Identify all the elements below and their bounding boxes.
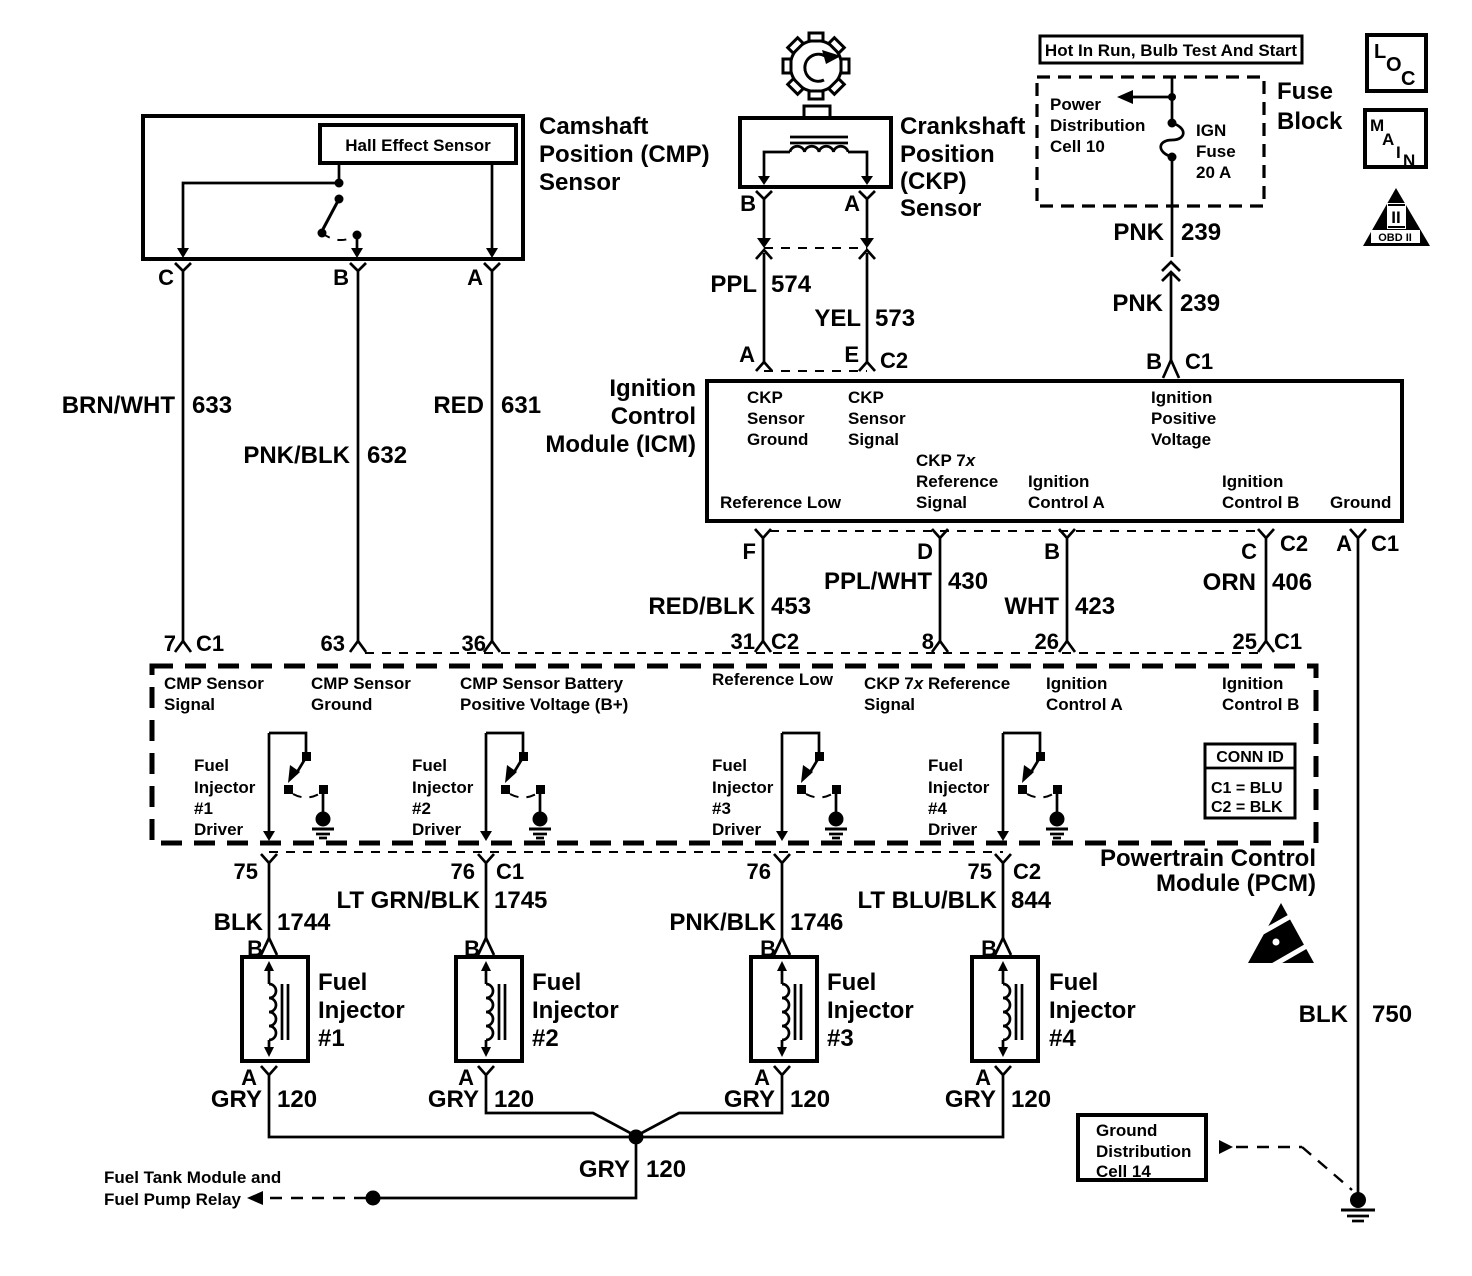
svg-text:Control A: Control A [1046, 695, 1123, 714]
terminal A of injector 1 [241, 1065, 277, 1090]
svg-text:Position (CMP): Position (CMP) [539, 141, 710, 168]
svg-text:LT BLU/BLK: LT BLU/BLK [857, 887, 997, 914]
svg-text:Reference Low: Reference Low [712, 670, 834, 689]
wire LT BLU/BLK 844 [1002, 872, 1005, 938]
svg-text:B: B [1146, 349, 1162, 374]
terminal A of injector 3 [754, 1065, 790, 1090]
svg-text:31: 31 [731, 629, 755, 654]
label Camshaft Position (CMP) Sensor [539, 113, 710, 196]
svg-text:Ground: Ground [311, 695, 372, 714]
terminal C of ICM [1241, 529, 1308, 564]
Hot In Run Bulb Test And Start box [1040, 36, 1302, 63]
terminal C of CMP [158, 263, 191, 290]
wire PNK/BLK 632 from B [350, 287, 366, 652]
wire injector 3 return [636, 1085, 782, 1136]
value label BRN/WHT 633 [62, 392, 232, 419]
svg-text:Injector: Injector [318, 997, 405, 1024]
svg-text:C2: C2 [1013, 859, 1041, 884]
label Fuel Injector #3 [827, 969, 914, 1052]
svg-text:Sensor: Sensor [848, 409, 906, 428]
ICM pin label Ignition Positive Voltage [1151, 388, 1216, 449]
value label GRY 120 injector 2 [428, 1086, 534, 1113]
inline connector top dashed line [764, 247, 867, 249]
svg-text:Driver: Driver [194, 820, 244, 839]
terminal B of CMP [333, 263, 366, 290]
ground G101 [1341, 1192, 1375, 1221]
svg-text:(CKP): (CKP) [900, 168, 967, 195]
svg-text:A: A [467, 265, 483, 290]
label Ignition Control Module (ICM) [545, 375, 696, 458]
svg-text:A: A [1336, 531, 1352, 556]
svg-text:120: 120 [790, 1086, 830, 1113]
transistor Q4 injector driver switch [1003, 733, 1062, 812]
svg-text:BRN/WHT: BRN/WHT [62, 392, 176, 419]
pin 36 label [462, 631, 486, 656]
svg-text:GRY: GRY [211, 1086, 262, 1113]
svg-text:B: B [740, 191, 756, 216]
terminal A of ICM [1336, 529, 1399, 556]
svg-text:63: 63 [321, 631, 345, 656]
svg-text:1746: 1746 [790, 909, 843, 936]
svg-text:BLK: BLK [1299, 1001, 1349, 1028]
switch blade [322, 199, 339, 231]
pin B of injector 3 [760, 936, 790, 961]
svg-text:Ignition: Ignition [1222, 472, 1283, 491]
svg-text:C1: C1 [1371, 531, 1399, 556]
fuel injector 4 box [972, 957, 1038, 1061]
svg-text:239: 239 [1181, 219, 1221, 246]
MAIN symbol box [1365, 110, 1426, 170]
svg-text:Fuel: Fuel [318, 969, 367, 996]
value label BLK 750 [1299, 1001, 1412, 1028]
svg-text:76: 76 [451, 859, 475, 884]
driver 2 coil to ground [529, 812, 551, 839]
wire hall-sensor output stem [338, 163, 341, 183]
value label LT BLU/BLK 844 [857, 887, 1051, 914]
value label GRY 120 main [579, 1156, 686, 1183]
svg-text:Ignition: Ignition [1222, 674, 1283, 693]
svg-text:OBD II: OBD II [1378, 232, 1412, 244]
connector id C2 [880, 348, 908, 373]
svg-text:632: 632 [367, 442, 407, 469]
ICM pin label Ignition Control B [1222, 472, 1299, 512]
svg-text:Ignition: Ignition [1028, 472, 1089, 491]
svg-text:Reference Low: Reference Low [720, 493, 842, 512]
svg-text:Driver: Driver [928, 820, 978, 839]
svg-text:IGN: IGN [1196, 121, 1226, 140]
terminal D of ICM [917, 529, 948, 564]
fuse IGN 20 A [1161, 119, 1184, 162]
svg-text:L: L [1374, 41, 1386, 63]
terminal 75 of PCM [968, 854, 1042, 884]
svg-text:Injector: Injector [928, 778, 990, 797]
svg-text:#3: #3 [827, 1025, 854, 1052]
CKP pickup coil [790, 146, 848, 152]
switch contact pivot [335, 195, 344, 204]
PCM pin label CMP Sensor Signal [164, 674, 264, 714]
switch closed contact node [353, 231, 362, 240]
switch blade end node [318, 229, 327, 238]
svg-text:WHT: WHT [1004, 593, 1059, 620]
svg-text:Injector: Injector [712, 778, 774, 797]
svg-text:Fuel: Fuel [1049, 969, 1098, 996]
wire coil to terminal B of CKP [758, 152, 790, 185]
PCM pin label Ignition Control B [1222, 674, 1299, 714]
svg-text:76: 76 [747, 859, 771, 884]
label Fuel Injector #2 [532, 969, 619, 1052]
splice dot to fuel pump relay [366, 1191, 381, 1206]
svg-text:Ignition: Ignition [1046, 674, 1107, 693]
label Fuel Injector #3 Driver [712, 756, 774, 839]
svg-text:PPL: PPL [710, 271, 757, 298]
svg-text:633: 633 [192, 392, 232, 419]
wire injector 1 return [269, 1085, 634, 1137]
svg-text:Fuel Pump Relay: Fuel Pump Relay [104, 1190, 242, 1209]
ICM box [707, 381, 1402, 521]
svg-text:C: C [1241, 539, 1257, 564]
wire PNK 239 upper [1171, 157, 1174, 257]
svg-text:C2: C2 [880, 348, 908, 373]
svg-text:Fuel: Fuel [827, 969, 876, 996]
wire LT GRN/BLK 1745 [485, 872, 488, 938]
value label GRY 120 injector 4 [945, 1086, 1051, 1113]
terminal B of CKP [740, 191, 772, 216]
svg-text:N: N [1403, 151, 1415, 170]
CKP pickup pole lines [790, 137, 848, 143]
label Fuel Injector #4 Driver [928, 756, 990, 839]
PCM dashed box [152, 666, 1316, 843]
wire BRN/WHT 633 from C [175, 287, 191, 652]
svg-text:C1: C1 [1185, 349, 1213, 374]
svg-text:CKP: CKP [848, 388, 884, 407]
svg-text:A: A [844, 191, 860, 216]
wire YEL 573 lower segment [866, 253, 869, 362]
arrow to ground distribution [1219, 1140, 1352, 1190]
OBD II symbol [1363, 188, 1430, 246]
svg-text:LT GRN/BLK: LT GRN/BLK [336, 887, 480, 914]
svg-text:E: E [844, 342, 859, 367]
svg-text:Powertrain Control: Powertrain Control [1100, 845, 1316, 872]
transistor Q2 injector driver switch [486, 733, 545, 812]
svg-text:C1 = BLU: C1 = BLU [1211, 780, 1283, 797]
svg-text:Camshaft: Camshaft [539, 113, 648, 140]
svg-text:574: 574 [771, 271, 812, 298]
svg-text:Ignition: Ignition [1151, 388, 1212, 407]
terminal 76 of PCM [451, 854, 525, 884]
svg-text:Block: Block [1277, 108, 1343, 135]
svg-text:Injector: Injector [532, 997, 619, 1024]
svg-text:PNK: PNK [1113, 219, 1164, 246]
Ground Distribution Cell 14 box [1078, 1115, 1206, 1181]
terminal A of injector 2 [458, 1065, 494, 1090]
CKP reluctor gear [791, 41, 842, 92]
value label GRY 120 injector 1 [211, 1086, 317, 1113]
svg-text:430: 430 [948, 568, 988, 595]
PCM pin label Ignition Control A [1046, 674, 1123, 714]
ICM pin label CKP 7x Reference Signal [916, 451, 998, 512]
svg-text:Position: Position [900, 141, 995, 168]
Fuse Block dashed box [1037, 77, 1264, 206]
wire YEL 573 upper segment [860, 215, 874, 248]
value label BLK 1744 [214, 909, 331, 936]
driver 4 coil to ground [1046, 812, 1068, 839]
CMP sensor outer box [143, 116, 523, 259]
wire driver 3 output [776, 733, 788, 841]
svg-text:423: 423 [1075, 593, 1115, 620]
splice junction GRY 120 [629, 1130, 644, 1145]
pin B of injector 2 [464, 936, 494, 961]
connector socket A side [859, 250, 875, 259]
svg-text:CMP Sensor: CMP Sensor [164, 674, 264, 693]
wire to power distribution arrow [1117, 90, 1176, 104]
ESD sensitive symbol [1247, 903, 1317, 970]
wire PPL 574 lower segment [763, 253, 766, 362]
svg-text:RED: RED [433, 392, 484, 419]
wire WHT 423 [1059, 546, 1075, 652]
wire BLK 1744 [268, 872, 271, 938]
svg-text:C: C [1401, 68, 1415, 90]
svg-text:Positive: Positive [1151, 409, 1216, 428]
svg-text:CMP Sensor Battery: CMP Sensor Battery [460, 674, 624, 693]
value label PNK 239 lower [1112, 290, 1220, 317]
value label PNK/BLK 1746 [669, 909, 843, 936]
svg-text:O: O [1386, 54, 1402, 76]
switch travel dashed arc [322, 233, 357, 240]
arrow to terminal B [351, 237, 363, 258]
terminal B of ICM [1044, 529, 1075, 564]
svg-text:26: 26 [1035, 629, 1059, 654]
svg-text:Sensor: Sensor [900, 195, 981, 222]
value label YEL 573 [814, 305, 915, 332]
pin E into ICM [844, 342, 875, 371]
wire injector 2 return [486, 1085, 636, 1136]
pin 7 C1 label [164, 631, 224, 656]
pin 26 label [1035, 629, 1059, 654]
svg-text:D: D [917, 539, 933, 564]
wire PNK/BLK 1746 [781, 872, 784, 938]
ICM pin label Ground [1330, 493, 1391, 512]
inline connector chevrons on PNK wire [1162, 262, 1180, 281]
svg-text:8: 8 [922, 629, 934, 654]
svg-text:CMP Sensor: CMP Sensor [311, 674, 411, 693]
value label PNK 239 upper [1113, 219, 1221, 246]
svg-text:120: 120 [494, 1086, 534, 1113]
svg-text:C: C [158, 265, 174, 290]
wire injector 4 return [638, 1085, 1003, 1137]
svg-text:C2: C2 [771, 629, 799, 654]
wire fuse feed [1171, 77, 1174, 121]
PCM pin label CMP Sensor Ground [311, 674, 411, 714]
wire PPL/WHT 430 [932, 546, 948, 652]
ICM pin label Reference Low [720, 493, 842, 512]
svg-text:1744: 1744 [277, 909, 331, 936]
value label RED/BLK 453 [648, 593, 811, 620]
terminal A of CMP [467, 263, 500, 290]
svg-text:239: 239 [1180, 290, 1220, 317]
label Fuel Injector #4 [1049, 969, 1136, 1052]
svg-text:GRY: GRY [579, 1156, 630, 1183]
wire to terminal C [177, 183, 339, 258]
svg-text:120: 120 [1011, 1086, 1051, 1113]
fuel injector 2 box [456, 957, 522, 1061]
label Fuse Block [1277, 78, 1343, 135]
svg-text:C2: C2 [1280, 531, 1308, 556]
terminal 76 of PCM [747, 854, 790, 884]
wire RED 631 from A [484, 287, 500, 652]
svg-text:C1: C1 [496, 859, 524, 884]
pin 31 C2 label [731, 629, 800, 654]
wire driver 2 output [480, 733, 492, 841]
terminal A of injector 4 [975, 1065, 1011, 1090]
PCM output connector dashed line [269, 851, 1003, 853]
terminal F of ICM [743, 529, 771, 564]
svg-text:Fuel: Fuel [712, 756, 747, 775]
svg-text:I: I [1396, 143, 1401, 162]
PCM pin label Reference Low [712, 670, 834, 689]
svg-text:Distribution: Distribution [1050, 116, 1145, 135]
svg-text:Injector: Injector [1049, 997, 1136, 1024]
svg-text:Driver: Driver [712, 820, 762, 839]
value label PPL/WHT 430 [824, 568, 988, 595]
svg-text:Fuse: Fuse [1277, 78, 1333, 105]
svg-text:Cell 14: Cell 14 [1096, 1162, 1151, 1181]
svg-text:Reference: Reference [916, 472, 998, 491]
svg-text:406: 406 [1272, 569, 1312, 596]
svg-text:#3: #3 [712, 799, 731, 818]
svg-text:ORN: ORN [1203, 569, 1256, 596]
svg-text:RED/BLK: RED/BLK [648, 593, 755, 620]
pin 25 C1 label [1233, 629, 1303, 654]
ICM connector dashed line [770, 530, 1258, 532]
svg-text:PNK: PNK [1112, 290, 1163, 317]
wire PPL 574 upper segment [757, 215, 771, 248]
svg-text:Distribution: Distribution [1096, 1142, 1191, 1161]
svg-text:20 A: 20 A [1196, 163, 1231, 182]
svg-text:75: 75 [968, 859, 992, 884]
svg-text:CKP: CKP [747, 388, 783, 407]
svg-text:631: 631 [501, 392, 541, 419]
svg-text:Hall Effect Sensor: Hall Effect Sensor [345, 136, 491, 155]
svg-text:C2 = BLK: C2 = BLK [1211, 799, 1283, 816]
label IGN Fuse 20 A [1196, 121, 1236, 182]
svg-text:Crankshaft: Crankshaft [900, 113, 1025, 140]
svg-text:PNK/BLK: PNK/BLK [669, 909, 776, 936]
svg-text:Sensor: Sensor [539, 169, 620, 196]
driver 3 coil to ground [825, 812, 847, 839]
svg-text:Hot In Run, Bulb Test And Star: Hot In Run, Bulb Test And Start [1045, 41, 1297, 60]
LOC symbol box [1367, 35, 1426, 91]
svg-text:Injector: Injector [412, 778, 474, 797]
label Power Distribution Cell 10 [1050, 95, 1145, 156]
svg-text:BLK: BLK [214, 909, 264, 936]
wire driver 1 output [263, 733, 275, 841]
CKP sensor tab [804, 106, 830, 118]
svg-text:B: B [1044, 539, 1060, 564]
pin A into ICM [739, 342, 772, 371]
svg-text:Fuel: Fuel [928, 756, 963, 775]
value label GRY 120 injector 3 [724, 1086, 830, 1113]
svg-text:750: 750 [1372, 1001, 1412, 1028]
terminal 75 of PCM [234, 854, 277, 884]
svg-text:F: F [743, 539, 756, 564]
svg-text:25: 25 [1233, 629, 1257, 654]
svg-text:#2: #2 [412, 799, 431, 818]
svg-text:Fuel: Fuel [532, 969, 581, 996]
terminal A of CKP [844, 191, 875, 216]
wire driver 4 output [997, 733, 1009, 841]
svg-text:#4: #4 [1049, 1025, 1076, 1052]
svg-text:Signal: Signal [848, 430, 899, 449]
injector 2 solenoid coil symbol [481, 961, 505, 1057]
svg-text:Sensor: Sensor [747, 409, 805, 428]
value label PPL 574 [710, 271, 811, 298]
pin 8 label [922, 629, 934, 654]
label Crankshaft Position (CKP) Sensor [900, 113, 1025, 222]
label Powertrain Control Module (PCM) [1100, 845, 1316, 897]
PCM connector dashed line top [365, 652, 1258, 654]
svg-text:Module (ICM): Module (ICM) [545, 431, 696, 458]
svg-text:Fuel: Fuel [412, 756, 447, 775]
svg-text:#1: #1 [194, 799, 213, 818]
wire hall sensor to terminal A [486, 163, 498, 258]
Hall Effect Sensor box [320, 125, 516, 163]
svg-text:Injector: Injector [827, 997, 914, 1024]
pin 63 label [321, 631, 345, 656]
svg-text:GRY: GRY [945, 1086, 996, 1113]
value label ORN 406 [1203, 569, 1312, 596]
svg-text:120: 120 [277, 1086, 317, 1113]
wire ORN 406 [1258, 546, 1274, 652]
svg-text:A: A [739, 342, 755, 367]
svg-text:GRY: GRY [724, 1086, 775, 1113]
value label LT GRN/BLK 1745 [336, 887, 547, 914]
svg-text:1745: 1745 [494, 887, 547, 914]
svg-text:Control A: Control A [1028, 493, 1105, 512]
svg-text:II: II [1391, 208, 1400, 227]
svg-text:Positive Voltage (B+): Positive Voltage (B+) [460, 695, 628, 714]
svg-text:573: 573 [875, 305, 915, 332]
svg-text:C1: C1 [196, 631, 224, 656]
svg-text:Power: Power [1050, 95, 1101, 114]
CKP gear teeth [783, 33, 849, 99]
wire dashed off-page to fuel pump relay [247, 1191, 366, 1205]
node switch common junction [335, 179, 344, 188]
wire coil to terminal A of CKP [848, 152, 873, 185]
label Fuel Injector #1 [318, 969, 405, 1052]
svg-text:120: 120 [646, 1156, 686, 1183]
svg-text:#4: #4 [928, 799, 947, 818]
svg-text:844: 844 [1011, 887, 1052, 914]
svg-text:Control B: Control B [1222, 695, 1299, 714]
wire RED/BLK 453 [755, 546, 771, 652]
svg-text:Signal: Signal [916, 493, 967, 512]
ICM pin label CKP Sensor Signal [848, 388, 906, 449]
PCM pin label CKP 7x Reference Signal [864, 674, 1010, 714]
svg-text:PNK/BLK: PNK/BLK [243, 442, 350, 469]
fuel injector 3 box [751, 957, 817, 1061]
svg-text:#1: #1 [318, 1025, 345, 1052]
value label PNK/BLK 632 [243, 442, 407, 469]
svg-text:PPL/WHT: PPL/WHT [824, 568, 932, 595]
svg-text:453: 453 [771, 593, 811, 620]
svg-text:Voltage: Voltage [1151, 430, 1211, 449]
wire PNK 239 lower [1170, 274, 1173, 360]
driver 1 coil to ground [312, 812, 334, 839]
svg-text:C1: C1 [1274, 629, 1302, 654]
svg-text:75: 75 [234, 859, 258, 884]
svg-text:Ground: Ground [1330, 493, 1391, 512]
svg-text:Driver: Driver [412, 820, 462, 839]
